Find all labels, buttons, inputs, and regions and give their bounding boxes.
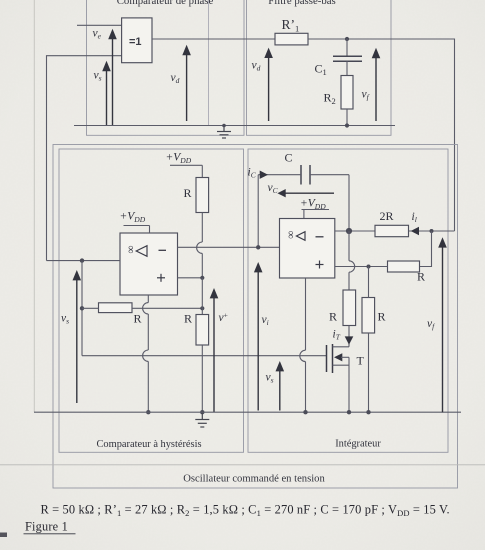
resistor R (pull-up): [184, 178, 209, 213]
node: divider junction: [200, 306, 204, 310]
arrow vi: [254, 262, 269, 411]
node: il junction: [430, 229, 434, 233]
resistor R'1: [275, 17, 308, 45]
ground symbol (bottom): [195, 412, 209, 427]
node: vs: [80, 258, 84, 262]
resistor R (integrator feedback): [388, 261, 426, 284]
arrow vd (filter side): [252, 48, 273, 121]
node: R2 to rail: [345, 123, 349, 127]
node B (summing): [346, 228, 352, 234]
arrow vf (filter side): [362, 48, 381, 121]
wire: U2 minus to 2R: [335, 230, 375, 232]
svg-text:R: R: [378, 310, 386, 324]
wire: node B down with hop: [349, 231, 355, 290]
wire: vs node to U1: [47, 260, 121, 262]
arrow vf (integrator): [427, 237, 447, 412]
node: ground on rail: [222, 124, 226, 128]
svg-text:2R: 2R: [380, 209, 394, 223]
arrow vs (comparator): [61, 270, 81, 403]
wire: U1 bottom with hops: [143, 295, 149, 412]
svg-text:R = 50 kΩ ; R’1 = 27 kΩ ; R2 =: R = 50 kΩ ; R’1 = 27 kΩ ; R2 = 1,5 kΩ ; …: [41, 503, 450, 519]
wire: pull-up down with hop over output: [197, 213, 203, 278]
xor gate =1: [122, 18, 152, 63]
resistor R (horizontal): [82, 303, 202, 326]
+VDD op-amp U2: [300, 198, 329, 219]
wire: U1 output to U2 input: [178, 246, 280, 248]
node: R bottom on rail: [366, 410, 370, 414]
svg-text:R: R: [329, 310, 337, 324]
arrow ve: [93, 28, 117, 126]
wire: 2R to feedback corner: [409, 230, 455, 232]
arrow iT: [333, 326, 354, 347]
svg-text:∞: ∞: [125, 246, 137, 254]
wire: U1 plus input: [178, 277, 203, 279]
arrow vs (top): [94, 61, 111, 126]
capacitor C1: [315, 39, 363, 77]
svg-text:Oscillateur commandé en tensio: Oscillateur commandé en tension: [183, 474, 325, 485]
svg-text:Figure 1: Figure 1: [25, 520, 68, 534]
svg-text:Filtre passe-bas: Filtre passe-bas: [268, 0, 335, 7]
wire: vs vertical: [81, 261, 83, 356]
arrow vC: [268, 182, 335, 197]
node: U1 bottom on rail: [146, 410, 150, 414]
node: U2 input: [256, 245, 260, 249]
box: Oscillateur commande en tension (outer): [53, 145, 458, 489]
wire: XOR output to R'1: [152, 38, 275, 40]
svg-text:R: R: [134, 312, 142, 326]
wire: U2 bottom to rail with hop: [300, 278, 306, 412]
svg-text:Intégrateur: Intégrateur: [335, 439, 381, 450]
resistor R2: [324, 76, 354, 126]
wire: junction down to R: [201, 278, 203, 315]
svg-text:∞: ∞: [285, 231, 297, 239]
svg-text:C: C: [285, 151, 293, 165]
wire: ve input to XOR: [77, 24, 122, 26]
arrow il: [411, 211, 419, 235]
ground rail (top): [74, 125, 395, 127]
op-amp U2 (integrateur): [280, 219, 335, 279]
svg-text:=1: =1: [129, 36, 142, 48]
wire: R'1 to feedback corner: [308, 39, 455, 231]
+VDD supply (pull-up): [166, 152, 203, 178]
smudge bottom-left: [0, 533, 7, 538]
node: plus input junction: [200, 276, 204, 280]
+VDD op-amp U1: [120, 211, 150, 234]
box: Integrateur (inner right): [248, 149, 448, 452]
capacitor C (integrator feedback): [258, 151, 349, 248]
arrow vd (comparator side): [171, 45, 191, 121]
box: Filtre passe-bas (top cut off): [247, 0, 392, 135]
transistor T (MOSFET): [327, 344, 365, 412]
node: MOSFET source on rail: [347, 410, 351, 414]
arrow v+: [210, 288, 228, 412]
svg-text:R: R: [417, 270, 425, 284]
bottom rail: [34, 411, 461, 413]
wire: gate line to MOSFET: [82, 355, 327, 357]
wire: junction down to R feedback: [420, 231, 432, 267]
label: Figure 1: [24, 520, 76, 534]
wire: U2 plus to R: [335, 266, 388, 268]
resistor R (current source): [329, 290, 356, 326]
box: Comparateur de phase (top cut off): [87, 0, 245, 135]
node: R bottom on rail: [200, 410, 204, 414]
wire: vs feedback to XOR input: [47, 56, 122, 261]
resistor 2R: [375, 209, 409, 237]
svg-text:Comparateur de phase: Comparateur de phase: [117, 0, 214, 7]
svg-text:R: R: [184, 186, 192, 200]
full-width scan rule: [0, 464, 485, 466]
svg-text:T: T: [357, 354, 365, 368]
svg-text:Comparateur à hystérésis: Comparateur à hystérésis: [96, 439, 201, 450]
box: Comparateur a hysteresis (inner left): [59, 149, 244, 452]
arrow vs (integrator): [266, 361, 285, 411]
node A (filter output): [345, 37, 349, 41]
light column line: [208, 0, 210, 126]
node: U2 ground on rail: [303, 410, 307, 414]
ground symbol (top): [217, 126, 231, 139]
arrow iC: [248, 167, 269, 180]
resistor R (to ground): [184, 312, 209, 413]
svg-text:R: R: [184, 312, 192, 326]
margin scan line: [33, 0, 35, 412]
op-amp U1 (comparateur): [120, 233, 178, 295]
node: plus junction: [367, 265, 371, 269]
node: vs to R: [80, 306, 84, 310]
resistor R (plus input to rail): [362, 267, 386, 413]
